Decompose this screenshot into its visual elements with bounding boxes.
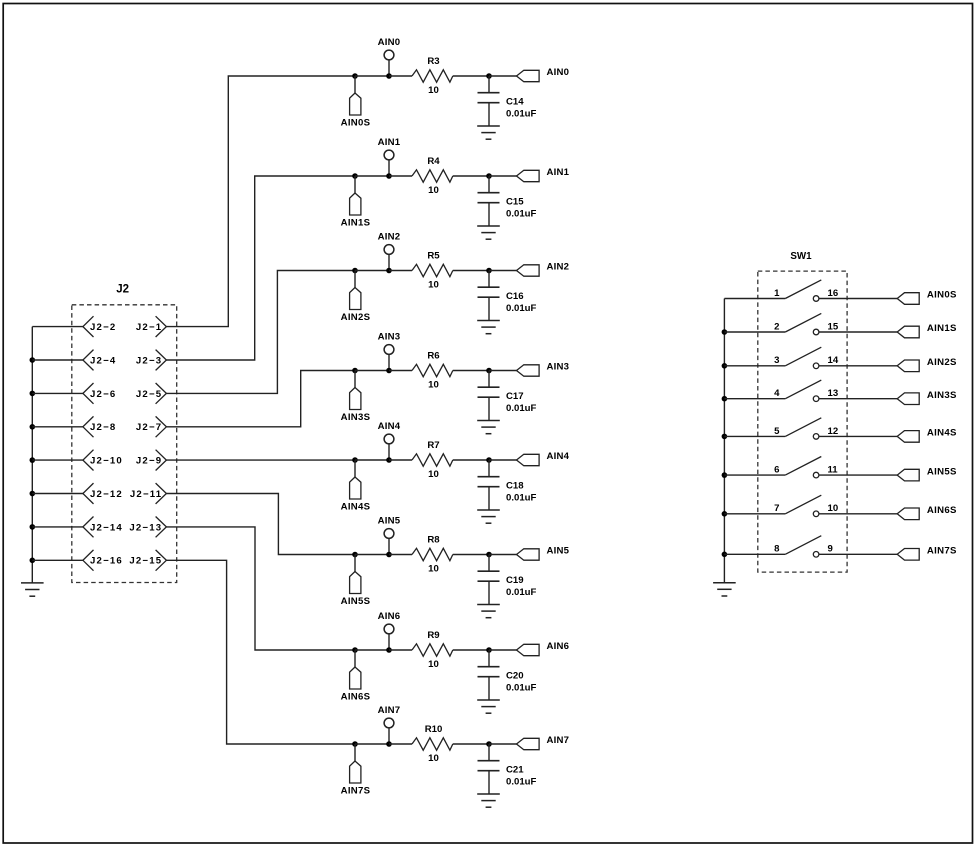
wire [453,270,489,272]
wire pin 14 to AIN2S flag [819,365,897,367]
svg-text:J2: J2 [116,284,129,296]
junction node test point AIN4 [386,457,392,463]
switch pole pin 1 [774,280,821,299]
capacitor C20 value 0.01uF [478,650,537,700]
svg-text:AIN4S: AIN4S [927,428,957,439]
shield flag AIN6S [341,650,371,703]
svg-text:J2−12: J2−12 [90,489,123,500]
connector pin J2-9 [136,450,167,471]
svg-text:AIN2S: AIN2S [927,357,957,368]
junction node AIN3S tap [352,368,358,374]
wire [389,75,412,77]
svg-text:AIN6S: AIN6S [927,505,957,516]
svg-text:AIN4: AIN4 [378,421,401,432]
wire bus to pin J2-6 [32,392,83,394]
junction node AIN0S tap [352,73,358,79]
output flag AIN1 [517,167,570,182]
wire [489,743,517,745]
shield flag AIN7S [341,744,371,797]
svg-text:J2−5: J2−5 [136,389,162,400]
svg-text:AIN7S: AIN7S [341,786,371,797]
svg-text:6: 6 [774,465,779,476]
wire [355,554,389,556]
wire [389,370,412,372]
svg-text:C21: C21 [506,765,524,776]
test point AIN7 [378,705,401,744]
svg-text:10: 10 [428,753,439,764]
svg-text:C19: C19 [506,575,524,586]
svg-text:10: 10 [428,564,439,575]
svg-text:R9: R9 [427,630,439,641]
svg-text:AIN7: AIN7 [378,705,401,716]
ground (C18) [477,510,500,523]
svg-text:SW1: SW1 [790,251,812,262]
svg-text:AIN2S: AIN2S [341,312,371,323]
svg-text:7: 7 [774,503,779,514]
switch pole pin 7 [774,495,821,514]
wire bus to switch pin 3 [724,365,785,367]
ground (C16) [477,321,500,334]
resistor R6 value 10 [412,351,453,391]
svg-text:AIN1S: AIN1S [341,218,371,229]
svg-text:AIN0: AIN0 [378,37,401,48]
output flag AIN5 [517,546,570,561]
svg-text:J2−4: J2−4 [90,355,116,366]
wire [489,370,517,372]
wire [489,649,517,651]
wire bus to switch pin 7 [724,513,785,515]
junction node J2 bus row 5 [30,457,36,463]
svg-text:4: 4 [774,388,780,399]
svg-text:AIN3S: AIN3S [927,390,957,401]
resistor R4 value 10 [412,156,453,196]
wire [355,743,389,745]
ground bus wire (J2 side) [31,327,33,583]
wire pin 9 to AIN7S flag [819,553,897,555]
resistor R7 value 10 [412,440,453,480]
output flag AIN6 [517,641,570,656]
ground (SW1 bus) [713,583,736,596]
wire pin 11 to AIN5S flag [819,474,897,476]
switch pole pin 6 [774,457,821,476]
junction node C21 tap [486,741,492,747]
wire [489,554,517,556]
wire bus to pin J2-2 [32,326,83,328]
junction node SW1 bus row 2 [722,329,728,335]
svg-text:0.01uF: 0.01uF [506,303,537,314]
wire [489,270,517,272]
svg-text:9: 9 [828,544,833,555]
wire bus to pin J2-14 [32,526,83,528]
junction node J2 bus row 6 [30,491,36,497]
svg-text:13: 13 [828,388,839,399]
svg-text:AIN1S: AIN1S [927,323,957,334]
capacitor C15 value 0.01uF [478,176,537,226]
svg-text:AIN7S: AIN7S [927,546,957,557]
svg-text:AIN5S: AIN5S [341,596,371,607]
svg-text:0.01uF: 0.01uF [506,682,537,693]
svg-text:AIN6: AIN6 [378,611,401,622]
wire [355,75,389,77]
svg-text:AIN5S: AIN5S [927,466,957,477]
junction node test point AIN5 [386,552,392,558]
wire [389,743,412,745]
svg-text:R7: R7 [427,440,439,451]
resistor R5 value 10 [412,251,453,291]
connector pin J2-12 [83,483,123,504]
junction node test point AIN1 [386,173,392,179]
svg-text:J2−6: J2−6 [90,389,116,400]
capacitor C16 value 0.01uF [478,271,537,321]
wire J2-11 to AIN5 node [166,494,355,555]
output flag AIN2 [517,262,570,277]
svg-text:8: 8 [774,544,780,555]
wire pin 12 to AIN4S flag [819,435,897,437]
svg-text:J2−7: J2−7 [136,422,162,433]
output flag AIN1S [897,323,957,338]
svg-text:AIN5: AIN5 [378,515,401,526]
wire bus to switch pin 1 [724,298,785,300]
wire [355,459,389,461]
junction node AIN6S tap [352,647,358,653]
connector pin J2-4 [83,350,117,371]
svg-text:0.01uF: 0.01uF [506,208,537,219]
switch contact pin 13 [813,388,838,401]
switch pole pin 4 [774,380,821,399]
svg-text:J2−11: J2−11 [130,489,162,500]
connector pin J2-14 [83,517,123,538]
svg-text:AIN0S: AIN0S [341,118,371,129]
junction node test point AIN0 [386,73,392,79]
wire bus to switch pin 8 [724,553,785,555]
junction node test point AIN6 [386,647,392,653]
shield flag AIN3S [341,371,371,424]
wire [389,175,412,177]
svg-text:10: 10 [428,85,439,96]
svg-text:AIN7: AIN7 [547,735,570,746]
svg-text:R3: R3 [427,56,439,67]
svg-text:J2−1: J2−1 [136,322,162,333]
junction node AIN5S tap [352,552,358,558]
svg-text:AIN3S: AIN3S [341,412,371,423]
capacitor C14 value 0.01uF [478,76,537,126]
junction node SW1 bus row 7 [722,511,728,517]
junction node AIN7S tap [352,741,358,747]
connector pin J2-5 [136,383,167,404]
junction node C19 tap [486,552,492,558]
shield flag AIN0S [341,76,371,129]
svg-text:R6: R6 [427,351,439,362]
svg-text:C16: C16 [506,291,524,302]
junction node SW1 bus row 6 [722,472,728,478]
wire [389,459,412,461]
svg-text:C15: C15 [506,197,524,208]
svg-text:10: 10 [428,185,439,196]
output flag AIN3 [517,362,570,377]
wire [453,649,489,651]
junction node J2 bus row 3 [30,391,36,397]
svg-text:R5: R5 [427,251,440,262]
svg-text:3: 3 [774,355,779,366]
junction node test point AIN3 [386,368,392,374]
wire [355,175,389,177]
capacitor C21 value 0.01uF [478,744,537,794]
wire [389,554,412,556]
svg-text:0.01uF: 0.01uF [506,492,537,503]
junction node test point AIN2 [386,268,392,274]
junction node J2 bus row 8 [30,558,36,564]
test point AIN0 [378,37,401,76]
capacitor C19 value 0.01uF [478,555,537,605]
test point AIN3 [378,331,401,370]
svg-text:10: 10 [828,503,839,514]
switch contact pin 14 [813,355,839,368]
resistor R10 value 10 [412,724,453,764]
wire [489,459,517,461]
capacitor C17 value 0.01uF [478,371,537,421]
switch pole pin 3 [774,347,821,366]
test point AIN6 [378,611,401,650]
svg-text:0.01uF: 0.01uF [506,108,537,119]
capacitor C18 value 0.01uF [478,460,537,510]
switch pole pin 5 [774,418,821,437]
wire J2-9 to AIN4 node [166,459,355,461]
junction node AIN1S tap [352,173,358,179]
svg-text:10: 10 [428,380,439,391]
wire J2-3 to AIN1 node [166,176,355,360]
connector pin J2-1 [136,316,167,337]
connector pin J2-8 [83,416,117,437]
wire bus to switch pin 4 [724,398,785,400]
wire J2-5 to AIN2 node [166,271,355,394]
wire [355,270,389,272]
svg-text:AIN6S: AIN6S [341,692,371,703]
wire bus to switch pin 2 [724,331,785,333]
junction node C17 tap [486,368,492,374]
svg-text:AIN2: AIN2 [547,262,570,273]
svg-text:AIN1: AIN1 [378,137,401,148]
switch pole pin 8 [774,536,821,555]
junction node J2 bus row 2 [30,357,36,363]
svg-text:J2−3: J2−3 [136,355,162,366]
wire bus to switch pin 6 [724,474,785,476]
svg-text:0.01uF: 0.01uF [506,776,537,787]
svg-text:10: 10 [428,280,439,291]
ground bus wire (SW1 side) [723,299,725,583]
connector J2 outline [72,284,177,583]
svg-text:10: 10 [428,469,439,480]
junction node SW1 bus row 3 [722,363,728,369]
test point AIN4 [378,421,401,460]
svg-text:AIN0: AIN0 [547,67,570,78]
svg-text:AIN5: AIN5 [547,546,570,557]
svg-text:J2−9: J2−9 [136,456,162,467]
switch contact pin 16 [813,288,838,301]
wire [355,370,389,372]
ground (C20) [477,700,500,713]
switch contact pin 11 [813,465,838,478]
wire [453,743,489,745]
resistor R9 value 10 [412,630,453,670]
svg-text:AIN6: AIN6 [547,641,570,652]
wire [355,649,389,651]
switch contact pin 9 [813,544,833,557]
connector pin J2-2 [83,316,117,337]
connector pin J2-15 [129,550,166,571]
wire [453,175,489,177]
connector pin J2-16 [83,550,123,571]
wire pin 13 to AIN3S flag [819,398,897,400]
junction node C15 tap [486,173,492,179]
wire pin 16 to AIN0S flag [819,298,897,300]
output flag AIN4 [517,451,570,466]
svg-text:J2−13: J2−13 [129,522,162,533]
svg-text:C20: C20 [506,671,524,682]
wire [389,270,412,272]
svg-text:R10: R10 [425,724,443,735]
output flag AIN5S [897,466,957,481]
svg-text:J2−16: J2−16 [90,556,123,567]
output flag AIN3S [897,390,957,405]
svg-text:AIN4S: AIN4S [341,502,371,513]
ground (C21) [477,794,500,807]
ground (C17) [477,421,500,434]
resistor R3 value 10 [412,56,453,96]
ground (C15) [477,226,500,239]
output flag AIN6S [897,505,957,520]
wire bus to pin J2-16 [32,559,83,561]
connector pin J2-7 [136,416,167,437]
wire J2-1 to AIN0 node [166,76,355,327]
svg-text:14: 14 [828,355,839,366]
test point AIN2 [378,231,401,270]
svg-text:J2−10: J2−10 [90,456,123,467]
wire J2-7 to AIN3 node [166,371,355,427]
wire [389,649,412,651]
shield flag AIN1S [341,176,371,229]
svg-text:J2−8: J2−8 [90,422,116,433]
junction node AIN4S tap [352,457,358,463]
svg-text:1: 1 [774,288,780,299]
junction node J2 bus row 7 [30,524,36,530]
shield flag AIN4S [341,460,371,513]
test point AIN1 [378,137,401,176]
shield flag AIN2S [341,271,371,324]
wire [453,75,489,77]
connector pin J2-6 [83,383,117,404]
switch pole pin 2 [774,313,821,332]
switch contact pin 12 [813,426,838,439]
output flag AIN0S [897,290,957,305]
svg-text:16: 16 [828,288,839,299]
junction node J2 bus row 4 [30,424,36,430]
svg-text:J2−15: J2−15 [129,556,162,567]
ground (C14) [477,126,500,139]
svg-text:10: 10 [428,659,439,670]
wire bus to pin J2-8 [32,426,83,428]
wire pin 15 to AIN1S flag [819,331,897,333]
connector pin J2-13 [129,517,166,538]
svg-text:C18: C18 [506,481,524,492]
svg-text:5: 5 [774,426,780,437]
svg-text:J2−14: J2−14 [90,522,123,533]
wire [489,175,517,177]
junction node test point AIN7 [386,741,392,747]
connector pin J2-11 [130,483,167,504]
svg-text:AIN3: AIN3 [547,362,570,373]
junction node C16 tap [486,268,492,274]
svg-text:C17: C17 [506,391,524,402]
wire bus to pin J2-10 [32,459,83,461]
svg-text:15: 15 [828,321,839,332]
output flag AIN0 [517,67,570,82]
ground (J2 bus) [21,583,44,596]
wire pin 10 to AIN6S flag [819,513,897,515]
svg-text:AIN4: AIN4 [547,451,570,462]
wire bus to switch pin 5 [724,435,785,437]
svg-text:AIN0S: AIN0S [927,290,957,301]
wire J2-13 to AIN6 node [166,527,355,650]
svg-text:AIN2: AIN2 [378,231,401,242]
svg-text:0.01uF: 0.01uF [506,587,537,598]
svg-text:R4: R4 [427,156,440,167]
wire [453,370,489,372]
output flag AIN7 [517,735,570,750]
output flag AIN7S [897,546,957,561]
connector pin J2-10 [83,450,123,471]
wire [453,554,489,556]
shield flag AIN5S [341,555,371,608]
wire bus to pin J2-4 [32,359,83,361]
output flag AIN4S [897,428,957,443]
switch contact pin 15 [813,321,839,334]
svg-text:12: 12 [828,426,839,437]
junction node SW1 bus row 4 [722,396,728,402]
connector pin J2-3 [136,350,167,371]
svg-text:J2−2: J2−2 [90,322,116,333]
svg-text:AIN3: AIN3 [378,331,401,342]
junction node SW1 bus row 5 [722,434,728,440]
junction node C14 tap [486,73,492,79]
resistor R8 value 10 [412,535,453,575]
output flag AIN2S [897,357,957,372]
svg-text:AIN1: AIN1 [547,167,570,178]
switch SW1 outline [758,251,847,572]
svg-text:2: 2 [774,321,779,332]
junction node C20 tap [486,647,492,653]
switch contact pin 10 [813,503,838,516]
wire J2-15 to AIN7 node [166,560,355,744]
junction node AIN2S tap [352,268,358,274]
wire [453,459,489,461]
wire [489,75,517,77]
svg-text:11: 11 [828,465,839,476]
svg-text:R8: R8 [427,535,440,546]
svg-text:C14: C14 [506,97,524,108]
ground (C19) [477,605,500,618]
wire bus to pin J2-12 [32,493,83,495]
svg-text:0.01uF: 0.01uF [506,403,537,414]
junction node C18 tap [486,457,492,463]
junction node SW1 bus row 8 [722,552,728,558]
test point AIN5 [378,515,401,554]
